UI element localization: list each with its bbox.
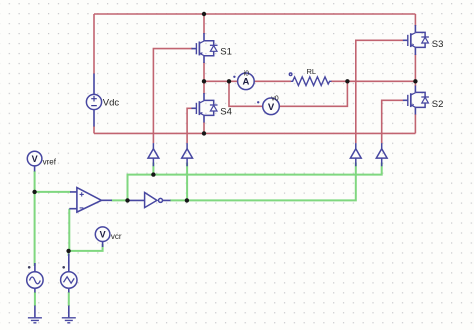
on-off controller 2 (S4 gate) — [182, 143, 193, 166]
wire: plus input of comparator — [35, 191, 71, 193]
ground 2 — [62, 318, 76, 323]
transistor S1 leads — [203, 33, 205, 63]
wire: resistor RL to right midpoint — [331, 80, 415, 82]
svg-text:RL: RL — [307, 67, 317, 76]
ammeter A (i0) — [233, 73, 254, 90]
transistor S3 leads — [414, 25, 416, 55]
on-off controller 3 (S3 gate) — [350, 143, 361, 166]
wire: Vref probe down to plus-input node — [34, 171, 36, 266]
wire: S2 drain from right midpoint — [414, 81, 416, 86]
svg-text:V: V — [100, 230, 106, 240]
junction node: NOT output / controller 2 — [185, 198, 189, 202]
svg-text:v0: v0 — [271, 95, 279, 102]
transistor S2 leads — [414, 86, 416, 115]
wire: NOT output line to controller 3 — [170, 163, 356, 201]
wire: S1 source to left midpoint — [203, 62, 205, 81]
wire: sine source 1 to ground (green part) — [34, 292, 36, 306]
voltmeter V (v0) — [257, 98, 279, 115]
polarity dot sine 1 — [28, 266, 31, 269]
wire: S3 drain from rail — [414, 14, 416, 26]
junction node: upper line / controller 1 — [151, 172, 155, 176]
ground 1 — [28, 318, 42, 323]
junction node: top rail / S1 drain — [202, 12, 206, 16]
wire: S1 drain from rail — [203, 14, 205, 34]
wire: S4 gate to controller 2 — [187, 108, 191, 143]
svg-text:S4: S4 — [220, 106, 232, 117]
wire: Vcr probe to minus node — [69, 244, 103, 251]
junction node: Vref / plus input — [32, 190, 36, 194]
wire: upper control line to controller 4 — [128, 163, 382, 201]
svg-text:Vdc: Vdc — [103, 97, 120, 108]
wire: S2 source to bottom rail — [414, 114, 416, 133]
resistor RL — [289, 73, 331, 86]
voltage probe Vref — [27, 151, 42, 171]
wire: top DC+ rail — [94, 13, 415, 15]
svg-text:V: V — [32, 154, 38, 164]
wire: minus node down to sine source 2 — [68, 251, 70, 256]
source Vdc — [86, 74, 101, 127]
wire: comparator output to junction — [112, 199, 130, 201]
wire: S3 source to right midpoint — [414, 54, 416, 81]
wire: Vdc bottom lead — [93, 126, 95, 133]
wire: S2 gate to controller 4 — [382, 100, 404, 143]
junction node: right leg midpoint — [413, 79, 417, 83]
svg-text:S2: S2 — [432, 99, 444, 110]
transistor S4 leads — [203, 93, 205, 123]
sine source Vsin2 (carrier) — [61, 254, 77, 318]
wire: ammeter to resistor RL — [254, 80, 291, 82]
wire: bottom DC- rail — [94, 132, 415, 134]
op-amp comparator U1 — [69, 188, 112, 213]
wire: voltmeter branch right — [279, 81, 347, 106]
on-off controller 1 (S1 gate) — [148, 143, 159, 166]
wire: Vdc top lead — [93, 14, 95, 74]
wire: voltmeter branch left — [229, 81, 263, 106]
svg-text:S1: S1 — [220, 47, 232, 58]
junction node: left leg midpoint — [202, 79, 206, 83]
junction node: S4 source / bottom rail — [202, 131, 206, 135]
on-off controller 4 (S2 gate) — [376, 143, 387, 166]
transistor S1 — [191, 41, 217, 56]
wire: S3 gate to controller 3 — [356, 40, 404, 143]
sine source Vsin1 — [27, 263, 43, 317]
NOT gate U2 — [129, 193, 171, 208]
polarity dot sine 2 — [62, 266, 65, 269]
transistor S2 — [403, 92, 429, 107]
junction node: voltmeter right branch — [345, 79, 349, 83]
transistor S3 — [403, 32, 429, 47]
svg-text:A: A — [242, 77, 249, 88]
wire: S1 gate to controller 1 — [153, 49, 192, 144]
junction node: voltmeter left branch — [227, 79, 231, 83]
svg-text:S3: S3 — [432, 39, 444, 50]
voltage probe Vcr — [95, 227, 110, 247]
svg-text:V: V — [268, 102, 275, 113]
wire: left midpoint to ammeter — [204, 80, 238, 82]
transistor S4 — [191, 100, 217, 115]
svg-text:vcr: vcr — [111, 232, 122, 241]
wire: sine source 2 to ground (green part) — [68, 292, 70, 306]
svg-text:vref: vref — [43, 157, 57, 166]
wire: S4 drain from midpoint — [203, 81, 205, 94]
wire: S4 source to bottom rail — [203, 122, 205, 133]
wire: minus input down to Vcr node — [68, 209, 70, 251]
junction node: Vcr / minus input / sine 2 — [66, 249, 70, 253]
wire: controller 1 stub to upper line — [152, 163, 154, 175]
wire: controller 2 stub down to NOT output line — [186, 163, 188, 201]
svg-text:i0: i0 — [244, 71, 250, 78]
junction node: comparator output branch — [125, 198, 129, 202]
